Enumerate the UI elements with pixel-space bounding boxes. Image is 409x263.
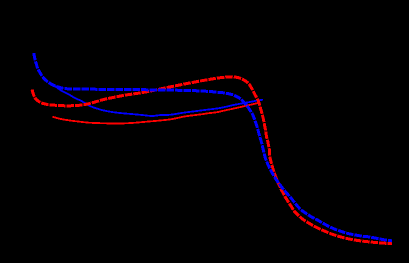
blue thin solid curve (descends from upper left, dips, rises toward centre) [51,84,263,117]
red thin solid curve (lower left, rising toward centre) [53,103,259,124]
blue thick dashed curve (steep start, flat plateau, steep drop, flat tail) [34,53,392,241]
red thick dashed curve (dips, rises to peak, steep drop, flat tail) [32,77,392,244]
